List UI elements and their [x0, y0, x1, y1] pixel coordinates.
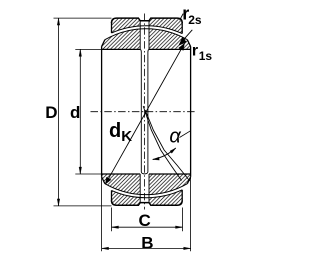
- inner ring sphere-edge chamfer bottom-left: [102, 177, 105, 184]
- hatched section: inner ring bottom-right: [149, 174, 191, 195]
- svg-text:C: C: [139, 211, 151, 230]
- tilted lube-hole wall left (alpha): [143, 106, 181, 181]
- r1s arrowhead: [179, 37, 186, 45]
- B extension line left: [101, 178, 103, 252]
- dK arrowhead upper: [179, 43, 185, 50]
- svg-text:d: d: [70, 103, 80, 122]
- vertical centerline (dash-dot): [144, 14, 146, 210]
- dK sphere diameter line: [105, 43, 184, 184]
- D arrow top: [57, 18, 60, 25]
- outer ring OD top edge with chamfers and lube notch: [112, 18, 183, 23]
- svg-text:D: D: [45, 103, 57, 122]
- lube passage in bore (center strip): [140, 49, 149, 174]
- C arrow left: [112, 226, 119, 229]
- outer ring right face top: [181, 22, 183, 34]
- d arrow bottom: [79, 167, 82, 174]
- outer ring left face top: [111, 22, 113, 33]
- inner ring sphere-edge chamfer top-left: [102, 40, 105, 47]
- d arrow top: [79, 49, 82, 56]
- r1s leader: [179, 30, 192, 45]
- horizontal axis centerline (dash-dot): [91, 111, 197, 113]
- inner-ring sphere arc top: [105, 29, 187, 40]
- outer-ring sphere seat arc bottom: [112, 190, 183, 198]
- inner-ring sphere arc bottom: [105, 184, 187, 195]
- D extension line top: [54, 17, 112, 19]
- D dimension line: [58, 18, 60, 206]
- svg-text:r: r: [192, 43, 198, 60]
- svg-text:2s: 2s: [188, 13, 202, 27]
- svg-text:B: B: [141, 234, 153, 253]
- alpha label leader: [180, 131, 191, 138]
- inner ring left face: [101, 47, 103, 177]
- D extension line bottom: [54, 205, 112, 207]
- r2s leader: [180, 14, 184, 21]
- d extension line top: [75, 48, 101, 50]
- hatched section: inner ring bottom-left: [102, 174, 141, 195]
- hatched section: outer ring top-right: [149, 18, 182, 33]
- lube hole walls through bottom rings: [140, 174, 149, 203]
- lube hole walls through top rings: [140, 21, 149, 50]
- hatched section: outer ring top-left: [112, 18, 141, 33]
- tilted lube-hole wall right (alpha): [145, 110, 190, 181]
- C extension line left: [111, 208, 113, 232]
- hatched section: outer ring bottom-left: [112, 190, 141, 205]
- dK arrowhead lower: [105, 177, 111, 184]
- svg-text:K: K: [121, 128, 132, 145]
- outer ring OD bottom edge with chamfers and lube notch: [112, 200, 183, 205]
- B arrow right: [184, 247, 191, 250]
- bore surface top: [102, 48, 191, 50]
- inner ring sphere-edge chamfer top-right: [187, 40, 190, 47]
- svg-text:α: α: [169, 126, 181, 148]
- d dimension line: [79, 49, 81, 174]
- inner ring sphere-edge chamfer bottom-right: [187, 177, 190, 184]
- B dimension line: [102, 247, 191, 249]
- outer ring right face bottom: [181, 190, 183, 202]
- B arrow left: [102, 247, 109, 250]
- alpha arc arrowhead left: [153, 157, 160, 160]
- hatched section: inner ring top-left: [102, 29, 141, 50]
- C dimension line: [112, 226, 183, 228]
- C arrow right: [176, 226, 183, 229]
- C extension line right: [182, 208, 184, 232]
- D arrow bottom: [57, 199, 60, 206]
- hatched section: outer ring bottom-right: [149, 190, 182, 206]
- inner ring right face: [190, 47, 192, 177]
- alpha arc arrowhead right: [170, 148, 176, 153]
- B extension line right: [190, 178, 192, 252]
- outer-ring sphere seat arc top: [112, 26, 183, 34]
- outer ring left face bottom: [111, 190, 113, 201]
- hatched section: inner ring top-right: [149, 29, 191, 50]
- d extension line bottom: [75, 173, 101, 175]
- svg-text:1s: 1s: [199, 49, 213, 63]
- svg-text:d: d: [109, 120, 121, 142]
- bore surface bottom: [102, 173, 191, 175]
- alpha angle double arrow arc: [153, 148, 176, 160]
